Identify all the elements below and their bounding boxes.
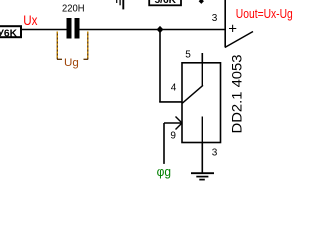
op-amp U1 bottom edge (diagonal) xyxy=(225,32,253,48)
svg-text:4: 4 xyxy=(171,82,177,93)
wire stubs at top edge (cut off component) xyxy=(117,0,124,9)
svg-text:У6K: У6K xyxy=(0,28,17,40)
switch arm (diagonal) xyxy=(182,85,203,103)
wire to pin 4 of DD2.1 xyxy=(159,101,182,103)
op-amp U1 left edge (cut off at top) xyxy=(224,0,226,47)
wire pin 3 to ground xyxy=(201,143,203,173)
analog switch DD2.1 box xyxy=(182,63,221,143)
svg-text:+: + xyxy=(228,20,237,37)
switch throw stub inside box (from pin 5) xyxy=(201,63,203,86)
wire node A down xyxy=(159,30,161,102)
wire C1 to node A and op-amp input xyxy=(80,29,226,31)
svg-text:Uout=Ux-Ug: Uout=Ux-Ug xyxy=(236,6,293,21)
node A (junction dot) xyxy=(157,26,164,33)
wire R1 to C1 xyxy=(21,29,67,31)
svg-text:DD2.1 4053: DD2.1 4053 xyxy=(229,54,245,133)
capacitor C1 xyxy=(67,18,80,39)
svg-text:220Н: 220Н xyxy=(62,4,85,15)
svg-text:φg: φg xyxy=(157,165,171,179)
Ug measurement bracket (dashed) right side xyxy=(84,32,89,60)
svg-text:3: 3 xyxy=(212,148,218,159)
svg-text:9: 9 xyxy=(170,131,176,142)
svg-text:3: 3 xyxy=(212,13,218,24)
Ug measurement bracket (dashed) left side xyxy=(57,32,62,60)
ground xyxy=(191,173,214,179)
switch common stub to pin 3 xyxy=(201,117,203,143)
svg-text:Ux: Ux xyxy=(23,12,37,28)
control pin 9 arrow xyxy=(164,117,182,130)
pin 5 stub (top) xyxy=(201,53,203,63)
resistor R1 (left, partially cut) xyxy=(0,26,21,39)
resistor R2 (top, cut off) xyxy=(149,0,181,6)
svg-text:5/6K: 5/6K xyxy=(155,0,177,6)
junction dot on top wire (cut off) xyxy=(199,0,204,4)
control wire down to phi-g xyxy=(163,123,165,164)
svg-text:5: 5 xyxy=(185,50,191,61)
svg-text:Ug: Ug xyxy=(64,57,79,69)
